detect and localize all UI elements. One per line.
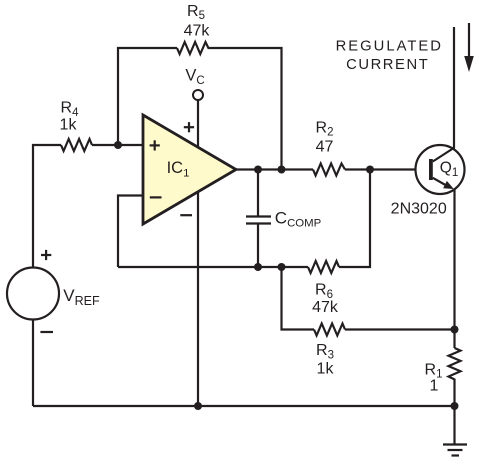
wire op-amp output to R2: [234, 168, 313, 170]
svg-text:1: 1: [430, 378, 439, 395]
svg-text:VC: VC: [185, 67, 204, 87]
svg-text:CCOMP: CCOMP: [275, 209, 321, 230]
resistor R6: [308, 261, 339, 273]
voltage source VREF: [7, 268, 59, 320]
label VREF plus sign: [41, 250, 51, 260]
node junction capacitor top: [254, 166, 262, 174]
node junction + input: [114, 141, 122, 149]
node junction R1 bottom rail: [451, 402, 459, 410]
svg-text:1k: 1k: [317, 361, 335, 378]
node junction opamp supply bottom rail: [194, 402, 202, 410]
wire R2 right lead to transistor base: [345, 168, 430, 170]
node junction R5 output: [278, 166, 286, 174]
node VREF + terminal wire: [32, 265, 34, 268]
resistor R4: [61, 139, 92, 151]
wire VREF bottom to bottom rail: [32, 320, 34, 407]
label VREF minus sign: [40, 331, 53, 333]
wire top rail right segment and R5 right vertical down to output: [211, 48, 282, 170]
wire R3 branch: down from lower rail, across to emitter node: [282, 267, 315, 330]
svg-text:R5: R5: [187, 3, 205, 22]
wire lower rail y=267 to R6: [118, 266, 308, 268]
capacitor CCOMP: [257, 170, 259, 217]
node junction R3 emitter: [451, 326, 459, 334]
wire R4 left lead and + input wire: [33, 145, 61, 267]
svg-text:REGULATED: REGULATED: [336, 38, 443, 54]
wire R1 to bottom rail and ground stem: [453, 384, 455, 444]
svg-text:47k: 47k: [312, 299, 339, 316]
wire R3 right lead: [345, 328, 455, 330]
node junction R3 branch: [278, 263, 286, 271]
resistor R2: [313, 164, 345, 176]
wire R6 right lead up to output node: [339, 170, 370, 268]
wire R4 right lead to op-amp + input: [92, 144, 144, 146]
op-amp IC1: [143, 115, 236, 224]
svg-text:VREF: VREF: [63, 286, 100, 308]
resistor R3: [314, 324, 345, 336]
svg-text:47: 47: [316, 139, 334, 156]
label op-amp - input: [150, 196, 162, 198]
resistor R1: [449, 348, 461, 384]
svg-text:R3: R3: [316, 342, 334, 361]
wire bottom rail: [33, 405, 455, 407]
ground: [443, 443, 467, 445]
svg-text:1k: 1k: [60, 117, 78, 134]
label op-amp + supply: [184, 122, 194, 132]
node junction capacitor bottom: [254, 263, 262, 271]
wire VC supply vertical through op-amp down to bottom rail: [197, 100, 199, 406]
svg-text:2N3020: 2N3020: [391, 200, 447, 217]
label op-amp + input: [150, 140, 160, 150]
svg-text:47k: 47k: [184, 23, 211, 40]
wire emitter down through R1 to ground: [453, 190, 455, 348]
wire op-amp inverting input feedback: left and down to lower rail: [118, 196, 144, 268]
resistor R5: [177, 42, 211, 54]
transistor Q1 2N3020: [416, 145, 465, 194]
svg-text:CURRENT: CURRENT: [346, 57, 429, 73]
terminal VC: [193, 90, 203, 100]
regulated current arrow: [468, 23, 470, 58]
label op-amp - supply: [180, 214, 192, 216]
node junction R6 base: [366, 166, 374, 174]
svg-text:R2: R2: [316, 119, 334, 138]
svg-text:R6: R6: [315, 282, 333, 301]
wire top feedback rail y=48: [118, 48, 177, 145]
wire regulated-current rail down to collector: [453, 27, 455, 148]
